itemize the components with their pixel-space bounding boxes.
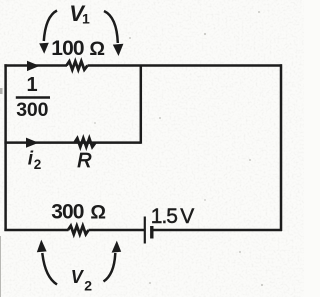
wire: top segment right of resistor xyxy=(88,64,283,67)
svg-text:V: V xyxy=(71,267,85,287)
curved arrow left of V2 (pointing up to wire) xyxy=(42,253,57,285)
svg-text:Ω: Ω xyxy=(90,201,106,223)
svg-text:V: V xyxy=(180,205,194,228)
wire: top segment left of resistor xyxy=(4,64,67,67)
wire: bottom segment left of resistor xyxy=(4,229,68,232)
current arrow on top wire xyxy=(27,61,40,71)
scan artifact: faint left edge line xyxy=(0,236,2,297)
wire: bottom segment between resistor and battery xyxy=(89,229,145,232)
scan noise speckles xyxy=(94,11,263,286)
svg-text:1: 1 xyxy=(27,74,38,96)
svg-text:100: 100 xyxy=(51,37,84,60)
current arrow i2 on middle wire xyxy=(26,138,39,148)
wire: right vertical xyxy=(280,64,283,231)
svg-text:300: 300 xyxy=(16,99,48,121)
battery cell 1.5V: long plate xyxy=(144,217,146,244)
scan artifact: smudge left edge xyxy=(0,88,3,94)
fraction bar xyxy=(16,96,50,99)
svg-text:1.5: 1.5 xyxy=(151,205,178,228)
curved arrow right of V1 (pointing down to wire) xyxy=(104,11,118,43)
wire: left vertical xyxy=(4,64,7,231)
resistor R (zigzag) xyxy=(75,138,96,147)
wire: bottom segment right of battery xyxy=(152,229,282,232)
svg-text:300: 300 xyxy=(51,200,84,223)
svg-text:2: 2 xyxy=(84,278,92,294)
battery cell 1.5V: short plate xyxy=(150,226,153,239)
svg-text:1: 1 xyxy=(82,11,90,27)
resistor 300 ohm (zigzag) xyxy=(68,226,89,234)
resistor 100 ohm (zigzag) xyxy=(67,61,88,69)
svg-text:R: R xyxy=(77,150,91,172)
curved arrow left of V1 (pointing down to wire) xyxy=(44,11,57,42)
wire: inner vertical connecting middle branch to top wire xyxy=(140,65,143,144)
curved arrow right of V2 (pointing up to wire) xyxy=(104,253,116,282)
svg-text:Ω: Ω xyxy=(89,38,105,60)
svg-text:2: 2 xyxy=(34,157,42,172)
wire: middle horizontal branch xyxy=(4,141,140,144)
